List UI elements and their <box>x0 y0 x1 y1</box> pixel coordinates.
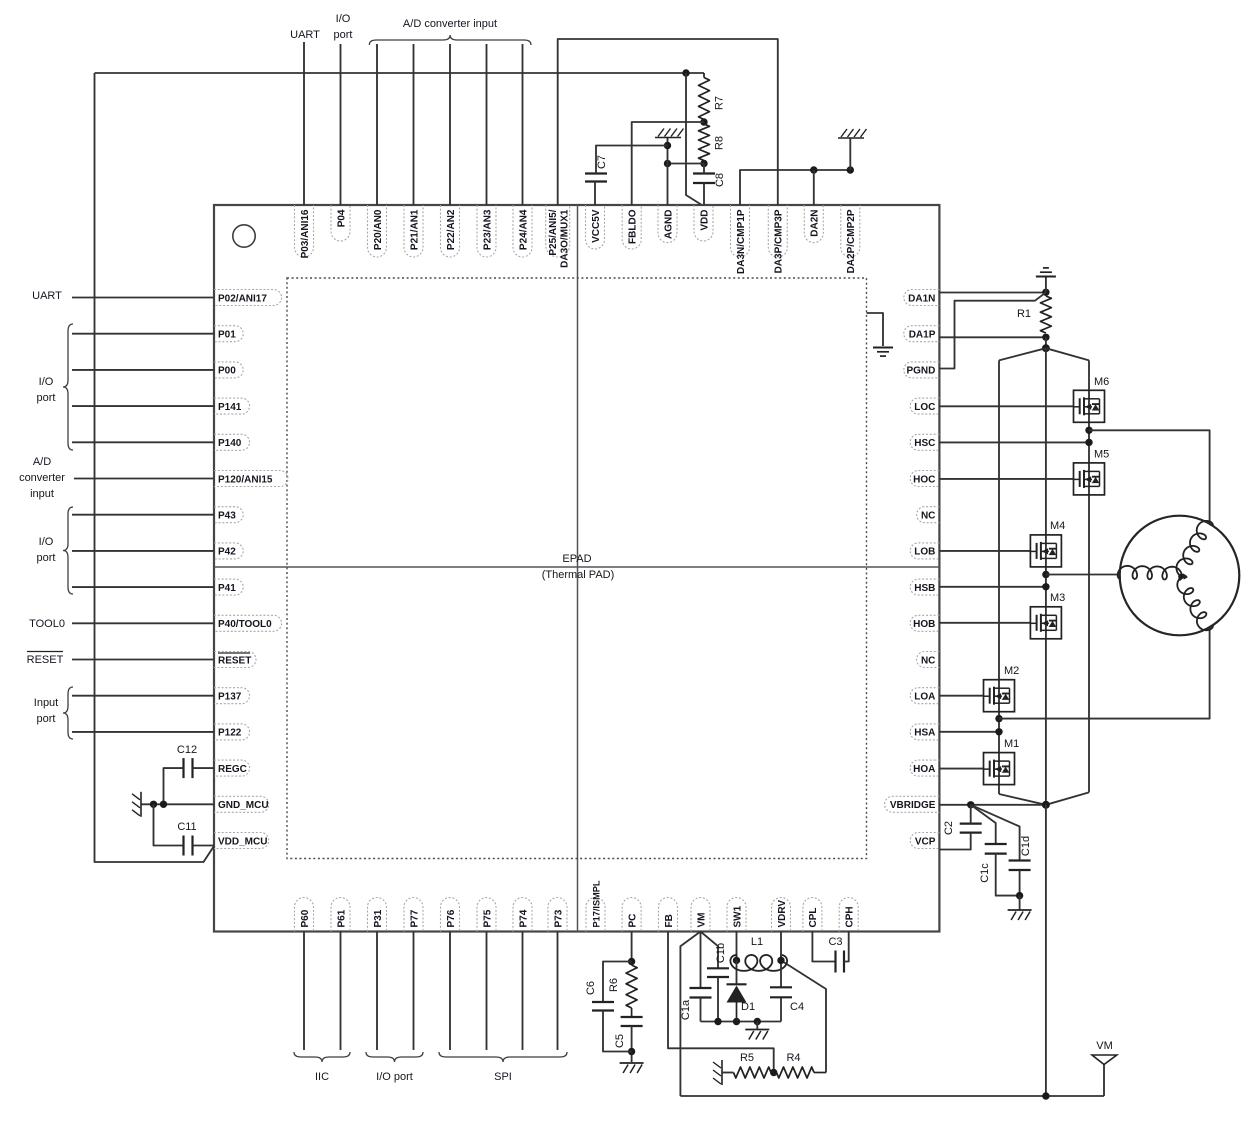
wire DA2P to ground <box>849 138 851 170</box>
svg-text:I/O: I/O <box>39 376 54 388</box>
svg-text:RESET: RESET <box>27 654 64 666</box>
wire HOB to M3 gate <box>939 622 1030 624</box>
EPAD thermal pad dotted outline <box>287 278 867 859</box>
VM supply rail <box>680 1095 1104 1097</box>
svg-text:C5: C5 <box>614 1034 626 1048</box>
pin-1 indicator circle <box>233 225 255 247</box>
pin NC@660 <box>917 652 940 668</box>
svg-text:LOB: LOB <box>914 547 935 558</box>
ground near DA2P <box>838 137 864 139</box>
I/O port brace upper <box>63 324 73 450</box>
wire center FET column <box>1045 348 1047 805</box>
svg-text:VM: VM <box>696 913 707 928</box>
transistor M6 <box>1074 390 1105 422</box>
Input port brace <box>63 687 73 739</box>
svg-text:P122: P122 <box>218 728 242 739</box>
pin P74 <box>513 898 532 932</box>
svg-text:AGND: AGND <box>663 210 674 239</box>
pin LOB@551 <box>910 543 939 559</box>
svg-text:L1: L1 <box>751 936 763 948</box>
svg-text:P120/ANI15: P120/ANI15 <box>218 474 273 485</box>
wire right column to bridge bottom <box>1046 792 1089 804</box>
svg-text:R6: R6 <box>608 978 620 992</box>
pin GND_MCU <box>214 796 269 812</box>
capacitor C2 <box>960 822 982 824</box>
wire HOC to M5 gate <box>939 478 1073 480</box>
svg-text:P01: P01 <box>218 330 236 341</box>
svg-text:(Thermal PAD): (Thermal PAD) <box>542 569 615 581</box>
pin P120/ANI15 <box>214 471 288 487</box>
svg-text:P40/TOOL0: P40/TOOL0 <box>218 619 272 630</box>
svg-text:HSB: HSB <box>914 583 935 594</box>
svg-text:P140: P140 <box>218 438 242 449</box>
GND_MCU wire <box>141 803 214 805</box>
pin REGC <box>214 760 250 776</box>
transistor M2 <box>984 680 1015 712</box>
svg-text:C7: C7 <box>596 155 608 169</box>
wire C11 to VDD_MCU <box>193 845 215 847</box>
svg-text:P75: P75 <box>482 909 493 927</box>
wire A/D input to P23/AN3 <box>486 44 488 205</box>
pin PGND@370 <box>904 362 940 378</box>
svg-text:DA1N: DA1N <box>908 293 935 304</box>
wire phase C to motor <box>1089 430 1210 524</box>
pin SW1 <box>727 898 746 932</box>
svg-text:FB: FB <box>664 914 675 927</box>
svg-text:P02/ANI17: P02/ANI17 <box>218 293 267 304</box>
svg-text:C12: C12 <box>177 744 197 756</box>
pin P61 <box>331 898 350 932</box>
wire fan to left FET column <box>999 348 1046 360</box>
wire phase B to motor <box>1046 574 1120 576</box>
resistor R6 <box>631 962 633 966</box>
wire to P141 <box>72 405 214 407</box>
svg-text:DA3N/CMP1P: DA3N/CMP1P <box>736 209 747 274</box>
capacitor C1a <box>690 987 712 989</box>
pin DA2P/CMP2P <box>841 205 860 257</box>
svg-text:HOB: HOB <box>913 619 935 630</box>
svg-text:C1a: C1a <box>680 999 692 1020</box>
pin P140 <box>214 434 250 450</box>
wire C12 left leg <box>164 768 184 804</box>
svg-text:DA3O/MUX1: DA3O/MUX1 <box>560 209 571 268</box>
wire to P00 <box>72 369 214 371</box>
svg-text:C1d: C1d <box>1020 836 1032 856</box>
svg-text:P00: P00 <box>218 366 236 377</box>
pin P41 <box>214 579 243 595</box>
wire DA1P to R1 bottom <box>939 336 1046 338</box>
svg-text:VDRV: VDRV <box>777 900 788 928</box>
junction C12 riser <box>160 801 167 808</box>
EPAD ground wire <box>867 313 884 346</box>
junction PC node <box>628 958 635 965</box>
svg-text:M6: M6 <box>1094 376 1109 388</box>
pin DA3P/CMP3P <box>768 205 787 257</box>
wire C6 branch <box>603 962 632 1003</box>
pin HSA@732 <box>910 724 939 740</box>
junction C1 ground <box>1016 892 1023 899</box>
junction AGND riser upper <box>664 142 671 149</box>
wire CPH to C3 <box>844 932 849 962</box>
svg-text:CPH: CPH <box>845 906 856 927</box>
junction C1b rail <box>714 1018 721 1025</box>
wire A/D input to P20/AN0 <box>376 44 378 205</box>
wire fan to right FET column <box>1046 348 1089 360</box>
pin P04 <box>331 205 350 241</box>
svg-text:DA1P: DA1P <box>909 330 936 341</box>
wire VM pin left leg <box>680 932 700 1097</box>
pin P03/ANI16 <box>295 205 314 257</box>
svg-text:VDD: VDD <box>699 210 710 231</box>
svg-text:M1: M1 <box>1004 738 1019 750</box>
svg-text:C1b: C1b <box>715 943 727 963</box>
pin AGND <box>658 205 677 243</box>
pin P31 <box>368 898 387 932</box>
motor winding upper-right <box>1176 521 1213 577</box>
junction HSC <box>1085 439 1092 446</box>
wire PGND to R1 top <box>939 292 1046 368</box>
pin VBRIDGE@804 <box>885 796 940 812</box>
pin P137 <box>214 688 250 704</box>
svg-text:P41: P41 <box>218 583 236 594</box>
bottom rail of buck <box>701 1021 782 1023</box>
capacitor C7 <box>585 172 607 174</box>
wire P76 down <box>449 932 451 1051</box>
pin P24/AN4 <box>513 205 532 257</box>
chip horizontal divider line <box>214 566 939 568</box>
svg-text:I/O: I/O <box>336 13 351 25</box>
pin VDRV <box>772 898 791 932</box>
resistor R4 <box>777 1067 815 1078</box>
transistor M1 <box>984 753 1015 785</box>
chip vertical divider line <box>577 205 579 932</box>
svg-text:converter: converter <box>19 472 65 484</box>
junction C11 riser <box>150 801 157 808</box>
wire DA3N/DA2N/DA2P ground net <box>740 170 850 205</box>
svg-text:HSA: HSA <box>914 728 935 739</box>
wire phase A to motor <box>999 627 1210 719</box>
svg-text:port: port <box>37 713 56 725</box>
svg-text:A/D: A/D <box>33 456 51 468</box>
pin HOB@623 <box>910 615 939 631</box>
svg-text:R1: R1 <box>1017 308 1031 320</box>
wire to P122 <box>72 731 214 733</box>
wire left column to bridge bottom <box>999 794 1046 805</box>
pin HSB@587 <box>910 579 939 595</box>
wire to P120/ANI15 <box>74 478 214 480</box>
junction rail ground <box>754 1018 761 1025</box>
wire I/O port to P04 <box>340 44 342 205</box>
svg-text:A/D converter input: A/D converter input <box>403 18 497 30</box>
svg-text:GND_MCU: GND_MCU <box>218 800 269 811</box>
pin P17/ISMPL <box>586 898 605 932</box>
VM supply triangle <box>1092 1055 1117 1065</box>
junction L1/VDRV <box>777 957 784 964</box>
pin PC <box>622 898 641 932</box>
capacitor C1b <box>707 967 729 969</box>
ground below D1 <box>745 1029 769 1031</box>
wire SW1 down <box>736 932 738 961</box>
wire HSB to column <box>939 586 1046 588</box>
junction D1 rail <box>733 1018 740 1025</box>
pin LOA@696 <box>910 688 939 704</box>
junction R8/C8 <box>700 160 707 167</box>
pin DA3N/CMP1P <box>731 205 750 257</box>
resistor R8 <box>699 124 710 161</box>
wire UART to P02/ANI17 <box>72 297 214 299</box>
junction VBRIDGE fan <box>967 801 974 808</box>
svg-text:P03/ANI16: P03/ANI16 <box>300 209 311 258</box>
pin FBLDO <box>622 205 641 249</box>
svg-text:M3: M3 <box>1050 592 1065 604</box>
capacitor C3 <box>834 951 836 973</box>
svg-text:P61: P61 <box>336 909 347 927</box>
svg-text:I/O port: I/O port <box>376 1071 413 1083</box>
wire P73 down <box>557 932 559 1051</box>
svg-text:P20/AN0: P20/AN0 <box>373 209 384 250</box>
wire P77 down <box>413 932 415 1051</box>
svg-text:HOC: HOC <box>913 474 935 485</box>
wire R8 to AGND riser <box>668 163 705 165</box>
junction R1 top <box>1042 289 1049 296</box>
wire rail to C4 bottom <box>780 997 782 1021</box>
wire P31 down <box>376 932 378 1051</box>
pin P00 <box>214 362 243 378</box>
wire AGND riser <box>667 138 669 206</box>
pin HOA@768 <box>910 760 939 776</box>
pin P40/TOOL0 <box>214 615 282 631</box>
svg-text:P141: P141 <box>218 402 242 413</box>
pin RESET <box>214 652 256 668</box>
wire P61 down <box>340 932 342 1051</box>
wire HSC to column <box>939 441 1089 443</box>
svg-text:P60: P60 <box>300 909 311 927</box>
EPAD ground symbol <box>873 347 893 349</box>
wire C6 bottom <box>603 1011 632 1052</box>
junction AGND riser lower <box>664 160 671 167</box>
pin P25/ANI5/DA3O/MUX1 <box>546 205 570 257</box>
svg-text:R4: R4 <box>786 1052 800 1064</box>
svg-text:P74: P74 <box>518 909 529 927</box>
pin DA1P@334 <box>904 326 940 342</box>
junction DA2N <box>810 166 817 173</box>
capacitor C8 <box>693 172 715 174</box>
pin P23/AN3 <box>477 205 496 257</box>
wire SW1 to D1 <box>736 960 738 984</box>
wire HOA to M1 gate <box>939 768 983 770</box>
svg-text:M4: M4 <box>1050 520 1065 532</box>
pin LOC@406 <box>910 398 939 414</box>
wire ground to R5 <box>722 1072 734 1074</box>
wire LOC to M6 gate <box>939 405 1073 407</box>
wire to P01 <box>72 333 214 335</box>
pin VCC5V <box>586 205 605 249</box>
junction bridge top node <box>1042 344 1050 352</box>
inductor L1 <box>730 955 787 971</box>
resistor R5 <box>734 1067 772 1078</box>
wire to P140 <box>72 441 214 443</box>
wire R1 top to ground <box>1045 277 1047 292</box>
wire C1b bottom <box>717 977 719 1022</box>
pin DA2N <box>804 205 823 243</box>
svg-text:P73: P73 <box>553 909 564 927</box>
IIC brace <box>294 1052 350 1062</box>
wire LOA to M2 gate <box>939 695 983 697</box>
wire C5 bottom <box>631 1026 633 1062</box>
pin P141 <box>214 398 250 414</box>
svg-text:CPL: CPL <box>808 908 819 928</box>
MCU chip body outline <box>214 205 939 932</box>
svg-text:DA2P/CMP2P: DA2P/CMP2P <box>846 209 857 273</box>
ground left of R5 <box>721 1060 723 1085</box>
junction bridge bottom node <box>1042 801 1050 809</box>
diode D1 <box>727 983 747 985</box>
transistor M4 <box>1030 535 1061 567</box>
I/O port brace lower <box>63 507 73 594</box>
svg-text:D1: D1 <box>741 1001 755 1013</box>
pin HSC@442 <box>910 434 939 450</box>
pin HOC@478 <box>910 471 939 487</box>
pin VM <box>691 898 710 932</box>
svg-text:C11: C11 <box>177 821 196 833</box>
junction SW1/L1 <box>733 957 740 964</box>
capacitor C4 <box>770 986 792 988</box>
pin P21/AN1 <box>404 205 423 257</box>
wire C1c bottom <box>996 854 1020 896</box>
svg-text:IIC: IIC <box>315 1071 329 1083</box>
junction M2 source / phase A <box>995 715 1002 722</box>
svg-text:VM: VM <box>1096 1040 1113 1052</box>
svg-text:P76: P76 <box>446 909 457 927</box>
wire bridge node to VM rail <box>1045 805 1047 1096</box>
wire C12 to REGC <box>193 767 215 769</box>
svg-text:port: port <box>37 552 56 564</box>
wire TOOL0 to P40/TOOL0 <box>72 622 214 624</box>
wire C1a bottom <box>700 998 702 1022</box>
wire VBRIDGE <box>939 804 1046 806</box>
pin FB <box>659 898 678 932</box>
wire UART to P03/ANI16 <box>303 42 305 205</box>
wire rail ground stub <box>756 1022 758 1030</box>
wire A/D input to P24/AN4 <box>522 44 524 205</box>
svg-text:FBLDO: FBLDO <box>628 209 639 244</box>
pin VDD <box>694 205 713 241</box>
wire to P137 <box>72 695 214 697</box>
wire P25 to DA3P/CMP3P net <box>558 39 778 205</box>
wire CPL to C3 <box>812 932 835 962</box>
wire to C1d <box>971 805 1020 861</box>
wire C8 leads <box>703 164 705 174</box>
wire VDD_MCU supply rail <box>95 72 705 74</box>
wire to VM symbol <box>1103 1065 1105 1097</box>
transistor M5 <box>1074 463 1105 495</box>
svg-text:P23/AN3: P23/AN3 <box>482 209 493 250</box>
svg-text:VBRIDGE: VBRIDGE <box>890 800 936 811</box>
wire right FET column <box>1088 360 1090 792</box>
svg-text:C4: C4 <box>790 1001 804 1013</box>
motor star point <box>1178 574 1184 580</box>
wire VM pin right leg <box>701 932 719 969</box>
ground below C5 <box>620 1062 644 1064</box>
pin P60 <box>295 898 314 932</box>
wire to P42 <box>72 550 214 552</box>
capacitor C1d <box>1009 859 1031 861</box>
svg-text:C2: C2 <box>943 821 955 835</box>
wire FBLDO to R7/R8 node <box>632 122 704 205</box>
svg-text:HOA: HOA <box>913 764 935 775</box>
svg-text:VCC5V: VCC5V <box>591 209 602 243</box>
wire P60 down <box>303 932 305 1051</box>
junction DA2P <box>847 166 854 173</box>
svg-text:P22/AN2: P22/AN2 <box>446 209 457 250</box>
wire C7 top to AGND net <box>596 146 668 174</box>
wire FB to R5/R4 node <box>668 932 774 1073</box>
svg-text:LOA: LOA <box>914 692 935 703</box>
wire to C1c <box>971 805 996 844</box>
ground at GND_MCU <box>140 792 142 817</box>
svg-text:C3: C3 <box>828 936 842 948</box>
svg-text:port: port <box>334 29 353 41</box>
pin NC@515 <box>917 507 940 523</box>
svg-text:SPI: SPI <box>494 1071 512 1083</box>
capacitor C1c <box>985 843 1007 845</box>
junction M4 source / phase B <box>1042 571 1049 578</box>
pin P42 <box>214 543 243 559</box>
pin CPH <box>839 898 858 932</box>
svg-text:EPAD: EPAD <box>562 553 591 565</box>
svg-text:C8: C8 <box>714 173 726 187</box>
svg-text:I/O: I/O <box>39 536 54 548</box>
svg-text:DA3P/CMP3P: DA3P/CMP3P <box>774 209 785 273</box>
svg-text:R7: R7 <box>714 96 726 110</box>
junction C5/C6 ground <box>628 1048 635 1055</box>
svg-text:RESET: RESET <box>218 655 251 666</box>
resistor R7 <box>703 73 705 78</box>
svg-text:P42: P42 <box>218 547 236 558</box>
svg-text:P43: P43 <box>218 511 236 522</box>
svg-text:DA2N: DA2N <box>810 210 821 237</box>
SPI brace <box>439 1052 567 1062</box>
svg-text:P137: P137 <box>218 692 242 703</box>
wire to ground <box>1019 896 1021 910</box>
svg-text:input: input <box>30 488 54 500</box>
svg-text:R5: R5 <box>740 1052 754 1064</box>
wire PC down <box>631 932 633 962</box>
svg-text:P21/AN1: P21/AN1 <box>409 209 420 250</box>
svg-text:NC: NC <box>921 511 935 522</box>
junction R5/R4 <box>770 1069 777 1076</box>
wire VM pin to C1a <box>700 932 702 989</box>
pin P75 <box>477 898 496 932</box>
wire supply rail left drop <box>95 73 215 862</box>
svg-text:P25/ANI5/: P25/ANI5/ <box>548 209 559 255</box>
svg-text:VDD_MCU: VDD_MCU <box>218 836 267 847</box>
motor winding left <box>1118 566 1182 580</box>
wire RESET <box>72 659 214 661</box>
pin P73 <box>548 898 567 932</box>
svg-text:UART: UART <box>32 290 62 302</box>
svg-text:NC: NC <box>921 655 935 666</box>
svg-text:HSC: HSC <box>914 438 935 449</box>
svg-text:LOC: LOC <box>914 402 935 413</box>
pin P77 <box>404 898 423 932</box>
wire C2 bottom to VCP <box>939 833 970 850</box>
resistor R1 <box>1040 296 1051 333</box>
pin VDD_MCU <box>214 833 269 849</box>
junction R7/R8 <box>700 118 707 125</box>
wire P74 down <box>522 932 524 1051</box>
svg-text:R8: R8 <box>714 136 726 150</box>
